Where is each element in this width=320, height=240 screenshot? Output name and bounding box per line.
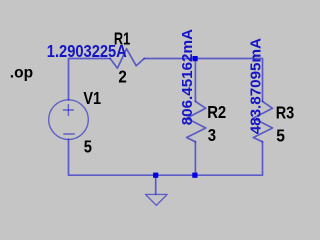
svg-text:V1: V1	[83, 88, 101, 108]
svg-text:R2: R2	[207, 102, 226, 122]
svg-text:2: 2	[118, 67, 126, 87]
wire: R3 bottom, bottom rail, V1 bottom	[69, 139, 263, 175]
V1 plus sign	[63, 109, 73, 111]
junction: bottom wire / R2	[192, 173, 197, 178]
wire: ground stub	[155, 175, 157, 194]
voltage source V1	[49, 100, 89, 140]
wire: R2 branch top	[194, 59, 196, 102]
svg-text:R3: R3	[276, 102, 295, 122]
svg-text:483.87095mA: 483.87095mA	[247, 38, 264, 134]
svg-text:R1: R1	[114, 29, 131, 49]
svg-text:806.45162mA: 806.45162mA	[179, 29, 196, 125]
svg-text:.op: .op	[10, 64, 33, 81]
wire: R2 bottom	[194, 142, 196, 175]
V1 minus sign	[64, 133, 74, 135]
resistor R2	[187, 101, 206, 141]
wire: V1 top to R1 left	[69, 59, 111, 100]
junction: bottom wire / ground	[153, 173, 158, 178]
resistor R1	[110, 49, 144, 68]
junction: top wire / R2	[193, 56, 198, 61]
svg-text:5: 5	[276, 125, 285, 145]
resistor R3	[253, 101, 272, 141]
svg-text:3: 3	[208, 125, 216, 145]
ground	[145, 194, 167, 205]
wire: R1 right to R3 branch top corner	[144, 59, 262, 102]
svg-text:5: 5	[84, 136, 93, 156]
